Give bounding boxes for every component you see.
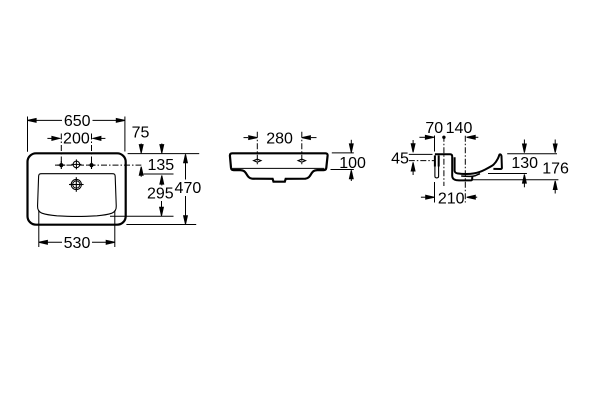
svg-text:100: 100 bbox=[339, 155, 366, 172]
svg-text:470: 470 bbox=[175, 180, 202, 197]
svg-text:140: 140 bbox=[446, 120, 473, 137]
svg-text:530: 530 bbox=[64, 235, 91, 252]
svg-text:295: 295 bbox=[147, 186, 174, 203]
svg-text:130: 130 bbox=[511, 155, 538, 172]
svg-text:210: 210 bbox=[438, 190, 465, 207]
svg-text:176: 176 bbox=[542, 161, 569, 178]
svg-text:45: 45 bbox=[391, 150, 409, 167]
svg-text:75: 75 bbox=[132, 124, 150, 141]
svg-text:200: 200 bbox=[63, 131, 90, 148]
svg-text:135: 135 bbox=[147, 157, 174, 174]
svg-text:70: 70 bbox=[425, 120, 443, 137]
svg-text:650: 650 bbox=[64, 113, 91, 130]
svg-text:280: 280 bbox=[266, 131, 293, 148]
